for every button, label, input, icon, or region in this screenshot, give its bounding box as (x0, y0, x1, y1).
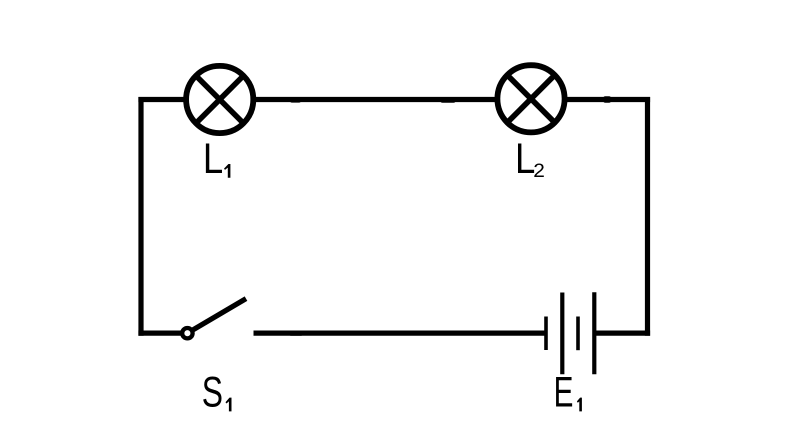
battery E1: long plate (positive, left cell) (560, 293, 564, 375)
junction bump on bottom wire near x=486 (480, 331, 492, 335)
wire: bottom-middle segment (switch to battery) (254, 331, 547, 336)
svg-text:S: S (202, 369, 223, 417)
battery E1: short plate (negative, right cell) (576, 317, 580, 351)
switch S1: lever (192, 299, 246, 331)
lamp L1 (186, 66, 253, 133)
svg-text:2: 2 (533, 161, 545, 182)
svg-text:L: L (203, 135, 223, 182)
junction bump on top wire near x=447 (441, 98, 456, 103)
wire: top horizontal (138, 97, 650, 102)
lamp L2 (497, 65, 564, 132)
wire: right vertical (645, 97, 650, 336)
battery E1: short plate (negative, left cell) (544, 317, 548, 351)
battery E1: long plate (positive, right cell) (592, 292, 596, 374)
wire: bottom-right segment (battery to right corner) (596, 331, 650, 336)
junction bump on top wire near x=296 (290, 98, 301, 103)
wire: left vertical (138, 97, 143, 336)
svg-text:E: E (554, 368, 574, 416)
junction bump on bottom wire near x=296 (289, 331, 303, 335)
junction bump on top wire near x=607 (603, 96, 611, 102)
switch S1: pivot circle (182, 328, 192, 338)
wire: bottom-left segment to switch pivot (138, 331, 185, 336)
